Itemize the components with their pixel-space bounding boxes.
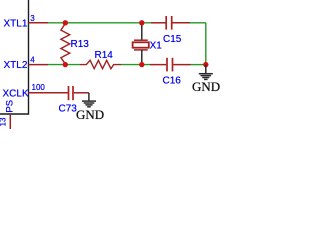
svg-text:C16: C16 [163,76,182,87]
svg-text:13: 13 [0,117,8,126]
wire C15 right to corner [190,22,206,24]
pin 100 XCLK [29,92,49,94]
wire junction dot R13 top [63,20,68,25]
wire junction dot X1 top [139,20,144,25]
svg-text:4: 4 [30,56,35,65]
pin 4 XTL2 [29,64,49,66]
wire junction dot right corner [203,62,208,67]
capacitor C15 [151,16,190,30]
capacitor C73 [69,86,89,100]
svg-text:C15: C15 [163,34,182,45]
crystal X1 [133,23,149,65]
svg-text:XCLK: XCLK [3,88,29,99]
resistor R14 [80,60,121,68]
wire junction dot R13 bottom [63,62,68,67]
wire XTL1 net: pin3 to C15 [48,22,151,24]
svg-text:XTL2: XTL2 [4,60,28,71]
pin 3 XTL1 [29,22,49,24]
IC U? right edge [0,0,29,114]
svg-text:GND: GND [76,107,104,122]
svg-text:PS: PS [4,100,15,113]
pin 13 PS (bottom edge) [9,115,11,129]
svg-text:R13: R13 [71,39,90,50]
svg-text:C73: C73 [59,104,78,115]
wire R14 to C16 [121,64,150,66]
svg-text:3: 3 [30,14,35,23]
svg-text:X1: X1 [150,40,163,51]
ground symbol right [199,65,213,80]
svg-text:GND: GND [192,79,220,94]
svg-text:XTL1: XTL1 [4,18,28,29]
wire junction dot X1 bottom [139,62,144,67]
wire XTL2 net: pin4 to R14 [48,64,80,66]
svg-text:100: 100 [32,83,46,92]
svg-text:R14: R14 [95,50,114,61]
resistor R13 [61,24,70,64]
ground symbol left (C73) [82,93,96,107]
capacitor C16 [150,58,191,72]
wire right vertical [205,23,207,65]
wire C16 to right corner [191,64,206,66]
wire XCLK net: pin100 to C73 [48,92,68,94]
